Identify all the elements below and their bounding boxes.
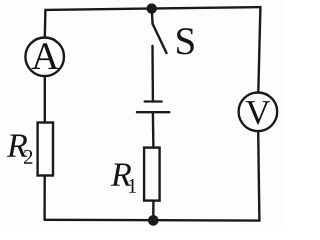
- wire switch contact to battery: [151, 46, 154, 100]
- node top junction: [147, 3, 157, 13]
- ammeter A: [25, 38, 64, 77]
- wire voltmeter to bottom rail: [258, 131, 259, 220]
- resistor R2: [38, 123, 53, 176]
- label V (voltmeter): [246, 101, 270, 124]
- voltmeter V: [239, 93, 278, 132]
- label A (ammeter): [32, 43, 59, 69]
- wire R1 to bottom rail: [152, 201, 154, 220]
- wire ammeter to R2: [44, 76, 46, 122]
- label R2: [7, 135, 27, 157]
- wire R2 to bottom rail: [43, 176, 46, 220]
- switch S pivot lead: [150, 9, 153, 24]
- label S: [177, 28, 194, 54]
- resistor R1: [144, 148, 160, 201]
- switch S blade (open): [153, 24, 167, 53]
- node bottom junction: [148, 215, 159, 226]
- wire bottom rail: [45, 219, 260, 222]
- wire right vertical (top corner to voltmeter): [258, 7, 260, 93]
- wire top rail: [45, 7, 260, 10]
- wire left vertical (top corner to ammeter): [44, 10, 47, 38]
- battery short plate (negative): [145, 100, 162, 102]
- label R1: [111, 164, 131, 186]
- battery long plate (positive): [137, 111, 169, 113]
- wire battery to R1: [152, 113, 155, 147]
